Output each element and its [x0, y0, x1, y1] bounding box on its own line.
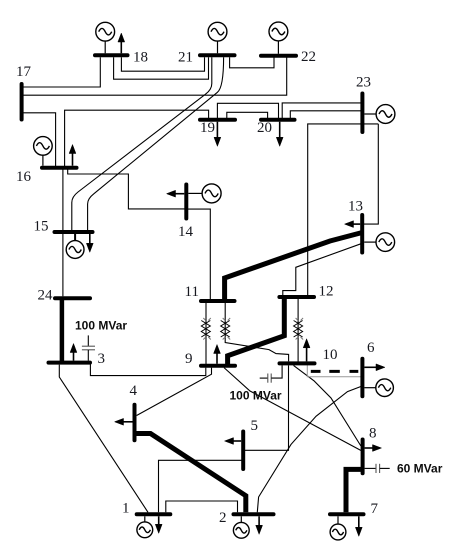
bus 4	[133, 405, 137, 440]
generator G15	[66, 234, 84, 258]
load arrow bus 16 (up)	[69, 145, 76, 166]
bus 12	[279, 295, 314, 299]
bus 13	[360, 215, 364, 253]
bus 16	[42, 166, 77, 170]
bus 8	[361, 440, 365, 474]
capacitor C3 100 MVar at bus 3	[82, 335, 95, 360]
load arrow bus 9 (up)	[214, 345, 221, 364]
wire 18-21 circuit A	[121, 57, 204, 71]
wire 8-10	[294, 365, 361, 446]
svg-text:2: 2	[219, 510, 227, 526]
wire 13-23	[364, 124, 379, 224]
wire 21-22	[230, 57, 274, 68]
generator G14	[188, 184, 221, 203]
wire 16-14	[68, 170, 185, 209]
capacitor C8 60 MVar at bus 8	[365, 464, 390, 473]
wire 16-19	[65, 110, 209, 166]
transformer branch 3-24 thick	[60, 298, 65, 362]
load arrow bus 14 (left)	[167, 190, 185, 197]
load arrow bus 8 (right)	[365, 445, 382, 452]
bus 10	[280, 361, 315, 365]
transformer 9-11 winding symbol	[201, 318, 211, 340]
bus 20	[261, 118, 295, 122]
load arrow bus 1 (down)	[155, 516, 162, 533]
wire 20-23 circuit B	[290, 111, 361, 118]
wire 6-10 dashed cable	[311, 370, 359, 373]
svg-text:19: 19	[200, 120, 215, 136]
svg-text:14: 14	[178, 224, 194, 240]
load arrow bus 15 (down)	[86, 234, 93, 252]
generator G23	[364, 105, 395, 124]
wire 12-13	[283, 243, 362, 295]
bus 3	[49, 361, 91, 365]
bus 6	[360, 359, 364, 397]
svg-text:17: 17	[16, 64, 32, 80]
svg-text:4: 4	[130, 383, 138, 399]
generator G21	[208, 22, 227, 53]
bus 17	[20, 84, 24, 120]
bus 7	[330, 512, 364, 516]
svg-text:20: 20	[257, 120, 272, 136]
wire 17-18	[22, 57, 101, 87]
bus 15	[55, 230, 93, 234]
load arrow bus 20 (down)	[276, 122, 283, 147]
wire 10-11	[225, 303, 288, 362]
svg-text:100 MVar: 100 MVar	[230, 389, 282, 403]
generator G7	[330, 516, 346, 540]
wire 2-6	[257, 386, 361, 512]
bus 24	[55, 296, 90, 300]
wire 15-21 circuit B	[88, 57, 224, 230]
transformer 10-12 winding symbol	[294, 318, 304, 340]
bus 9	[201, 364, 235, 368]
svg-text:5: 5	[251, 418, 259, 434]
wire 16-17	[22, 113, 56, 166]
svg-text:8: 8	[369, 426, 377, 442]
bus 19	[200, 118, 235, 122]
svg-text:10: 10	[323, 347, 338, 363]
wire 16-15 and 15-24	[62, 170, 64, 297]
svg-text:23: 23	[356, 75, 371, 91]
bus 11	[201, 299, 235, 303]
wire 10-12	[297, 299, 299, 362]
generator G2	[233, 516, 249, 538]
wire 12-23	[308, 124, 379, 296]
load arrow bus 19 (down)	[214, 122, 221, 147]
wire 18-21 circuit B	[114, 57, 209, 79]
wire 14-11	[188, 209, 211, 299]
bus 2	[234, 512, 274, 516]
svg-text:3: 3	[98, 351, 106, 367]
svg-text:9: 9	[185, 351, 193, 367]
line 11-13 thick	[225, 233, 363, 302]
bus 22	[261, 54, 296, 58]
transformer 10-11 winding symbol	[221, 318, 231, 340]
svg-text:22: 22	[301, 49, 316, 65]
wire 9-11	[205, 303, 207, 364]
generator G22	[269, 22, 288, 54]
wire 20-23 circuit A	[282, 103, 361, 118]
wire 1-5	[159, 460, 244, 512]
load arrow bus 13 (left)	[345, 221, 361, 228]
svg-text:13: 13	[348, 199, 363, 215]
svg-text:21: 21	[178, 50, 193, 66]
wire 5-10	[243, 365, 288, 450]
transformer branch 9-12 thick	[228, 299, 285, 364]
wire 15-21 circuit A	[72, 57, 212, 230]
svg-text:12: 12	[319, 284, 334, 300]
svg-text:15: 15	[34, 219, 49, 235]
wire 17-22	[22, 58, 287, 96]
wire 19-20 circuit A	[217, 103, 278, 118]
load arrow bus 18 (up)	[118, 33, 125, 53]
svg-text:11: 11	[185, 284, 199, 300]
bus 14	[184, 185, 188, 219]
load arrow bus 4 (left)	[115, 418, 133, 425]
svg-text:7: 7	[371, 501, 379, 517]
wire 19-20 circuit B	[227, 112, 268, 118]
load arrow bus 6 (right)	[364, 364, 385, 371]
generator G13	[364, 233, 394, 252]
wire 8-9	[224, 368, 361, 451]
svg-text:24: 24	[38, 288, 54, 304]
line 2-4 thick	[137, 434, 246, 513]
svg-text:18: 18	[133, 50, 148, 66]
load arrow bus 2 (down)	[256, 516, 263, 534]
svg-text:6: 6	[367, 340, 375, 356]
load arrow bus 3 (up)	[70, 344, 77, 361]
bus 18	[95, 53, 128, 57]
line 7-8 thick	[346, 469, 361, 512]
wire 3-9	[90, 364, 205, 375]
generator G6	[364, 379, 393, 397]
wire 4-9	[137, 368, 212, 416]
wire 1-2	[166, 501, 238, 512]
svg-text:100 MVar: 100 MVar	[75, 319, 127, 333]
wire 1-3	[59, 365, 148, 513]
svg-text:1: 1	[122, 501, 130, 517]
bus 1	[137, 512, 171, 516]
load arrow bus 7 (down)	[355, 516, 362, 536]
svg-text:60 MVar: 60 MVar	[397, 462, 443, 476]
generator G16	[34, 137, 53, 166]
svg-text:16: 16	[16, 169, 32, 185]
load arrow bus 10 (up)	[303, 339, 310, 362]
generator G18	[96, 22, 115, 53]
wire 6-10 cable thin line	[307, 363, 361, 376]
bus 5	[241, 432, 245, 470]
busbars	[22, 55, 364, 514]
capacitor C10 100 MVar at bus 10	[260, 365, 282, 382]
bus 21	[200, 53, 235, 57]
generator G1	[137, 516, 153, 537]
bus 23	[360, 94, 364, 133]
load arrow bus 5 (left)	[225, 438, 242, 445]
